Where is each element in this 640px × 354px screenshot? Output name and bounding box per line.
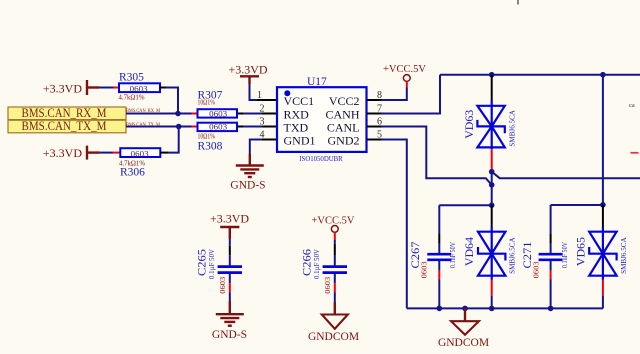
svg-text:BMS.CAN_RX_M: BMS.CAN_RX_M xyxy=(22,106,107,120)
junction CANH-VD63 xyxy=(489,72,495,78)
svg-text:GNDCOM: GNDCOM xyxy=(438,337,489,349)
junction RX node xyxy=(175,111,181,117)
svg-text:2: 2 xyxy=(260,104,265,115)
svg-text:+3.3VD: +3.3VD xyxy=(43,82,82,96)
capacitor C266 xyxy=(302,249,348,294)
op-amp U17 pin 7 xyxy=(367,113,382,115)
diode VD65 pin 2 xyxy=(602,280,604,296)
wire +3.3VD to U17 VCC1 xyxy=(250,84,258,100)
svg-text:1: 1 xyxy=(257,90,262,101)
svg-text:ca: ca xyxy=(629,102,635,109)
junction node A xyxy=(489,169,495,175)
wire C271 upper lead xyxy=(550,205,552,234)
diode VD63 xyxy=(464,100,517,149)
wire R305 to RX node xyxy=(166,88,179,114)
capacitor C267 pin 1 xyxy=(438,234,440,243)
diode VD64 pin 2 xyxy=(491,280,493,296)
capacitor C267 xyxy=(410,241,457,278)
power port +VCC.5V (above U17) xyxy=(383,64,426,88)
svg-text:+3.3VD: +3.3VD xyxy=(43,146,82,160)
svg-text:GND2: GND2 xyxy=(328,134,360,148)
svg-text:VD64: VD64 xyxy=(464,237,476,266)
svg-text:10Ω1%: 10Ω1% xyxy=(198,99,216,107)
wire U17 GND1 to ground xyxy=(250,140,262,154)
svg-text:0603: 0603 xyxy=(421,261,429,279)
diode VD65 xyxy=(576,227,629,280)
ground GNDCOM (under C266) xyxy=(308,303,359,343)
diode VD63 pin 2 xyxy=(491,149,493,172)
svg-text:0603: 0603 xyxy=(324,276,332,294)
wire C271 top rail xyxy=(551,204,603,206)
svg-text:3: 3 xyxy=(260,117,265,128)
wire CANL to right edge xyxy=(492,172,640,179)
junction node B xyxy=(489,182,495,188)
pin fragment (right edge) xyxy=(631,152,639,154)
svg-text:C265: C265 xyxy=(197,249,209,276)
resistor R307 pin 1 xyxy=(192,113,198,115)
junction CANH-VD65 xyxy=(600,72,606,78)
wire R305 left xyxy=(99,87,114,89)
wire VD64 to bottom rail xyxy=(491,296,493,309)
wire +3.3VD to C265 xyxy=(229,239,231,246)
svg-text:CANH: CANH xyxy=(325,108,359,122)
op-amp U17 pin 5 xyxy=(367,139,382,141)
svg-text:0.1nF 50V: 0.1nF 50V xyxy=(449,242,457,268)
svg-text:VD63: VD63 xyxy=(464,110,476,139)
power port +3.3VD (lower left) xyxy=(43,146,100,160)
diode VD64 pin 1 xyxy=(491,205,493,227)
op-amp U17 pin 2 xyxy=(262,113,277,115)
wire GND2 down xyxy=(382,140,407,309)
power port +3.3VD (above C265) xyxy=(210,211,249,239)
wire C265 to ground xyxy=(229,293,231,302)
resistor R308 xyxy=(198,122,238,152)
svg-text:0.1µF 50V: 0.1µF 50V xyxy=(313,249,321,279)
svg-text:VD65: VD65 xyxy=(576,237,588,266)
ground GNDCOM (bottom rail) xyxy=(438,308,489,348)
capacitor C265 xyxy=(197,249,242,294)
power port +3.3VD (above U17) xyxy=(228,63,267,85)
junction VD65 top xyxy=(600,202,606,208)
resistor R308 pin 2 xyxy=(238,126,243,128)
svg-text:+3.3VD: +3.3VD xyxy=(228,63,267,77)
power port +3.3VD (upper left) xyxy=(43,80,99,96)
op-amp U17 pin 8 xyxy=(367,99,382,101)
power port +VCC.5V (above C266) xyxy=(312,215,355,240)
wire C271 to bottom rail xyxy=(550,280,552,309)
junction GNDCOM stub xyxy=(462,306,468,312)
svg-text:0603: 0603 xyxy=(533,261,541,279)
svg-text:VCC1: VCC1 xyxy=(284,94,315,108)
diode VD63 pin 1 xyxy=(491,75,493,100)
text fragment (top edge) xyxy=(517,0,519,5)
diode VD65 pin 1 xyxy=(602,205,604,227)
op-amp U17 pin 3 xyxy=(262,126,277,128)
svg-text:TXD: TXD xyxy=(284,121,309,135)
svg-text:0.1nF 50V: 0.1nF 50V xyxy=(561,242,569,268)
op-amp U17 pin 6 xyxy=(367,126,382,128)
capacitor C271 pin 2 xyxy=(550,270,552,280)
svg-text:SMBJ6.5CA: SMBJ6.5CA xyxy=(621,237,628,274)
resistor R308 pin 1 xyxy=(192,126,198,128)
resistor R305 pin 2 xyxy=(160,87,166,89)
svg-text:4: 4 xyxy=(260,130,265,141)
junction C267-rail xyxy=(437,306,443,312)
resistor R306 xyxy=(119,148,160,178)
op-amp U17 pin 1 xyxy=(257,99,277,101)
ground GND-S (under C265) xyxy=(212,301,247,341)
op-amp U17 pin 4 xyxy=(262,139,277,141)
wire GNDCOM bottom rail xyxy=(407,307,603,309)
svg-text:0.1µF 50V: 0.1µF 50V xyxy=(208,249,216,279)
resistor R306 pin 1 xyxy=(113,152,121,154)
svg-text:C266: C266 xyxy=(302,249,314,276)
svg-text:+VCC.5V: +VCC.5V xyxy=(383,64,426,75)
resistor R305 xyxy=(119,72,161,102)
junction C271-rail xyxy=(548,306,554,312)
svg-text:CANL: CANL xyxy=(327,121,360,135)
wire CANL from pin 6 xyxy=(382,127,492,185)
svg-text:VCC2: VCC2 xyxy=(329,94,360,108)
svg-text:R306: R306 xyxy=(120,167,145,179)
diode VD64 xyxy=(464,227,517,280)
svg-text:4.7kΩ1%: 4.7kΩ1% xyxy=(119,94,145,102)
wire RX xyxy=(126,113,192,115)
wire R307 to U17 RXD xyxy=(243,113,262,115)
capacitor C266 pin 1 xyxy=(334,244,336,255)
resistor R305 pin 1 xyxy=(114,87,120,89)
capacitor C267 pin 2 xyxy=(438,270,440,280)
wire C267 upper lead xyxy=(438,205,440,234)
svg-text:GND-S: GND-S xyxy=(212,329,247,341)
svg-text:ISO1050DUBR: ISO1050DUBR xyxy=(299,156,343,163)
svg-text:10Ω1%: 10Ω1% xyxy=(198,133,216,141)
capacitor C266 pin 2 xyxy=(334,283,336,292)
wire CANH to top rail xyxy=(382,75,441,114)
wire node A to node C xyxy=(491,172,493,206)
svg-text:GND-S: GND-S xyxy=(230,180,265,192)
svg-text:+3.3VD: +3.3VD xyxy=(210,211,249,225)
wire C266 to ground xyxy=(334,293,336,303)
svg-text:GND1: GND1 xyxy=(284,134,316,148)
svg-text:GNDCOM: GNDCOM xyxy=(308,331,359,343)
op-amp U17 xyxy=(277,76,367,163)
ground GND-S (under U17) xyxy=(230,154,265,192)
wire C267 to bottom rail xyxy=(438,280,440,309)
net label BMS.CAN_TX_M xyxy=(8,119,126,133)
wire R306 left xyxy=(100,152,113,154)
capacitor C265 pin 2 xyxy=(229,283,231,292)
wire CANH to VD65 xyxy=(602,75,604,205)
svg-text:BMS.CAN_RX_M: BMS.CAN_RX_M xyxy=(126,108,160,114)
svg-text:BMS.CAN_TX_M: BMS.CAN_TX_M xyxy=(126,122,160,128)
svg-text:BMS.CAN_TX_M: BMS.CAN_TX_M xyxy=(22,119,107,133)
junction node C xyxy=(489,202,495,208)
wire VD65 to bottom rail xyxy=(602,296,604,309)
svg-text:RXD: RXD xyxy=(284,108,310,122)
svg-text:0603: 0603 xyxy=(131,149,149,158)
junction TX node xyxy=(176,124,182,130)
capacitor C271 pin 1 xyxy=(550,234,552,243)
resistor R307 xyxy=(198,89,238,118)
resistor R306 pin 2 xyxy=(160,152,168,154)
wire +VCC.5V to C266 xyxy=(334,240,336,244)
capacitor C265 pin 1 xyxy=(229,246,231,255)
svg-text:+VCC.5V: +VCC.5V xyxy=(312,215,355,226)
svg-text:0603: 0603 xyxy=(130,85,148,94)
wire R306 to TX node xyxy=(168,127,179,153)
wire C267 top rail xyxy=(439,204,491,206)
svg-text:SMBJ6.5CA: SMBJ6.5CA xyxy=(510,110,517,147)
svg-text:0603: 0603 xyxy=(219,276,227,294)
svg-text:R308: R308 xyxy=(198,141,223,153)
svg-text:SMBJ6.5CA: SMBJ6.5CA xyxy=(510,237,517,274)
wire VCC2 to +VCC.5V xyxy=(382,88,407,101)
wire TX xyxy=(126,126,192,128)
capacitor C271 xyxy=(522,241,569,278)
svg-text:R305: R305 xyxy=(119,72,144,84)
resistor R307 pin 2 xyxy=(238,113,243,115)
wire R308 to U17 TXD xyxy=(243,126,262,128)
wire CANH rail xyxy=(440,74,640,76)
svg-text:0603: 0603 xyxy=(209,109,227,118)
net label BMS.CAN_RX_M xyxy=(8,106,126,120)
junction VD64-rail xyxy=(489,306,495,312)
svg-text:0603: 0603 xyxy=(209,122,227,131)
